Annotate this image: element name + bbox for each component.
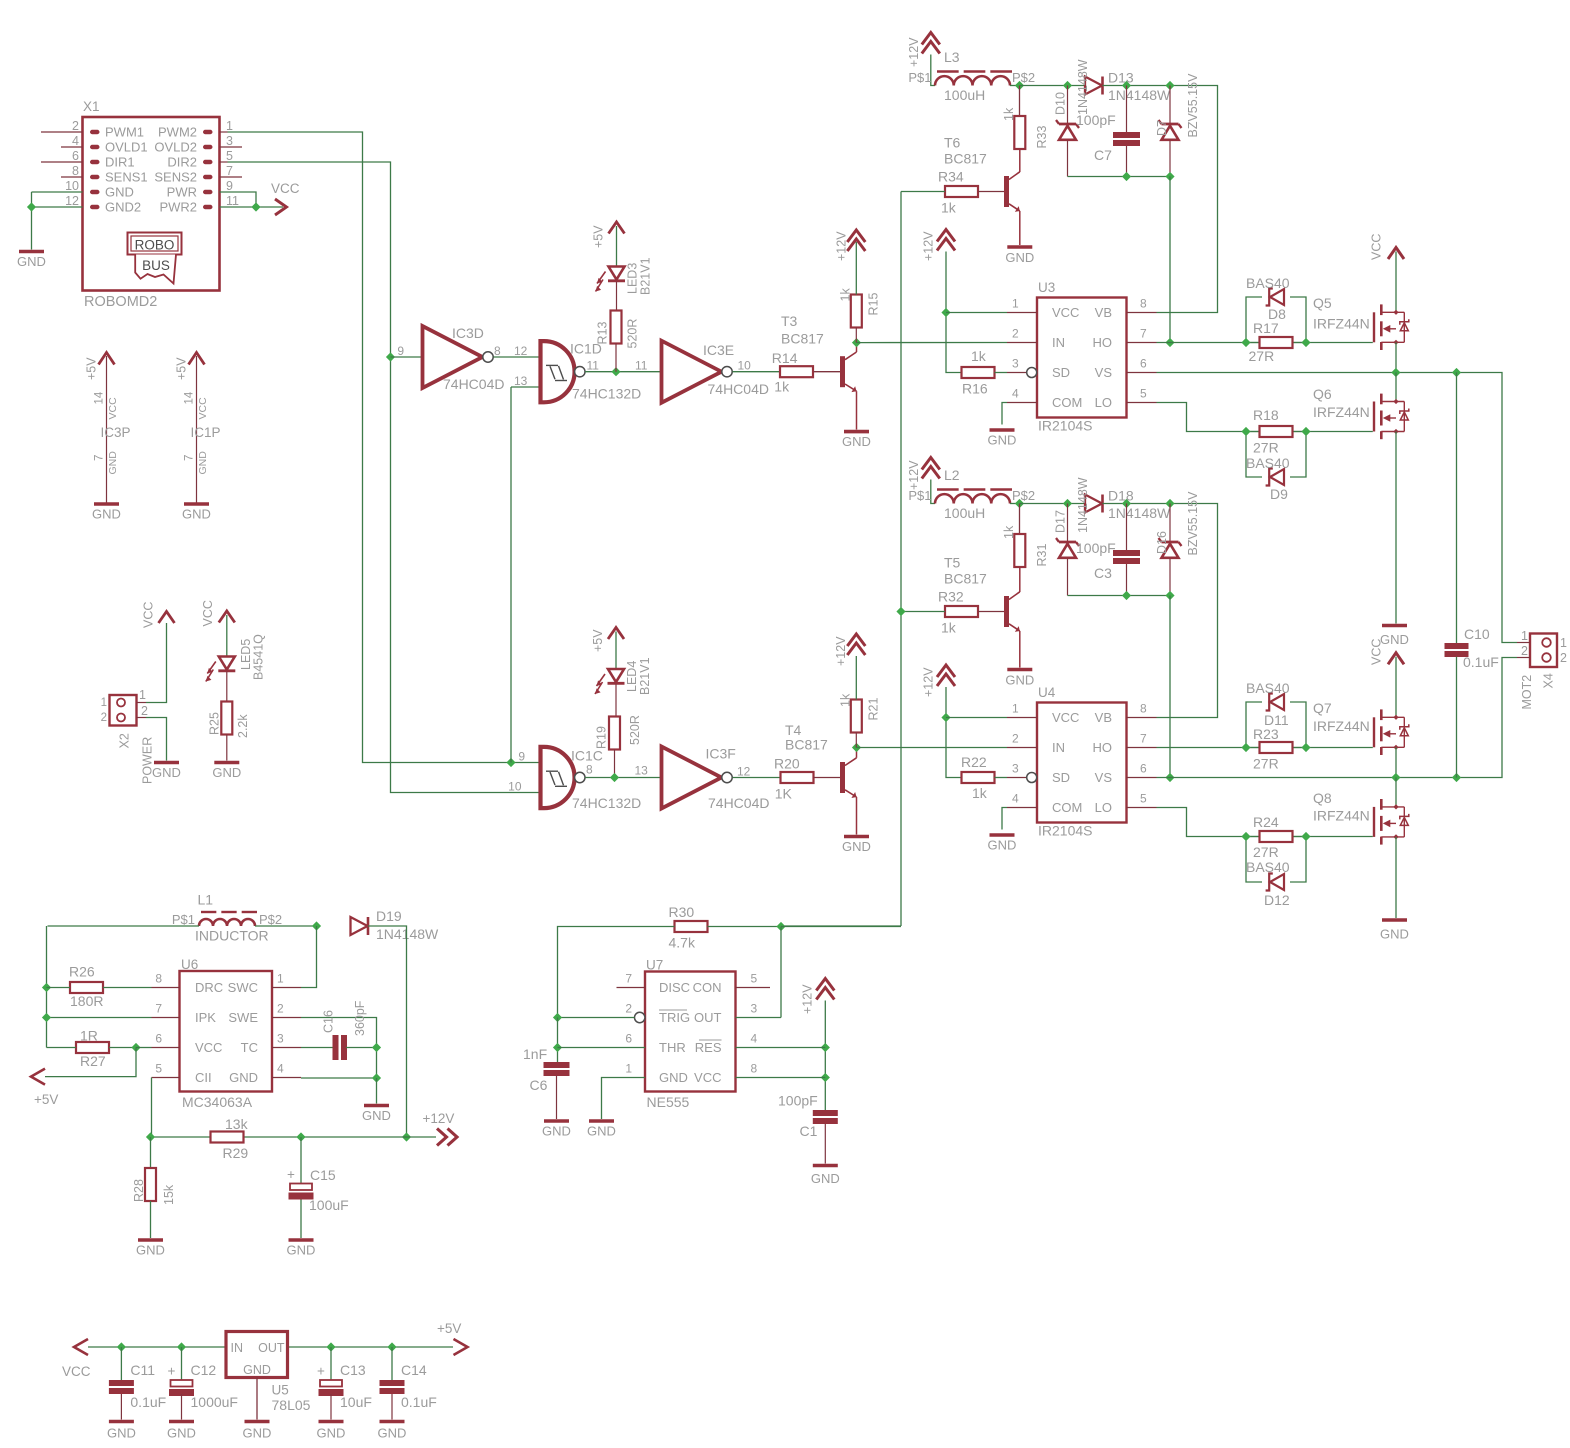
svg-text:T5: T5 [944,555,961,571]
svg-text:R20: R20 [774,756,800,772]
svg-text:VS: VS [1095,365,1113,380]
svg-text:1k: 1k [1002,525,1016,539]
svg-text:78L05: 78L05 [272,1397,311,1413]
svg-text:1N4148W: 1N4148W [1076,59,1090,115]
svg-text:INDUCTOR: INDUCTOR [195,928,269,944]
svg-text:9: 9 [518,750,525,764]
svg-text:R27: R27 [80,1053,106,1069]
svg-text:+12V: +12V [834,636,848,666]
svg-text:27R: 27R [1253,440,1279,456]
svg-text:VCC: VCC [107,397,119,420]
svg-text:GND: GND [107,451,119,475]
svg-text:R31: R31 [1035,544,1049,567]
svg-text:VS: VS [1095,770,1113,785]
svg-text:1k: 1k [1002,107,1016,121]
svg-text:GND: GND [542,1124,571,1139]
svg-text:DRC: DRC [195,980,223,995]
svg-text:100uH: 100uH [944,87,985,103]
svg-text:+12V: +12V [835,231,849,261]
svg-text:GND: GND [988,433,1017,448]
svg-text:4: 4 [277,1062,284,1076]
svg-text:+: + [287,1167,295,1182]
svg-text:100uF: 100uF [309,1197,349,1213]
svg-text:VCC: VCC [201,600,215,626]
svg-text:11: 11 [587,359,600,373]
svg-text:IRFZ44N: IRFZ44N [1313,404,1370,420]
svg-text:R18: R18 [1253,407,1279,423]
svg-text:L2: L2 [944,467,960,483]
svg-text:IN: IN [231,1341,244,1355]
svg-text:IC1P: IC1P [191,425,221,440]
svg-text:GND: GND [243,1426,272,1441]
svg-text:4.7k: 4.7k [669,935,696,951]
svg-text:520R: 520R [626,319,640,349]
svg-text:27R: 27R [1253,756,1279,772]
svg-text:+12V: +12V [801,984,815,1014]
svg-text:IRFZ44N: IRFZ44N [1313,718,1370,734]
svg-text:1k: 1k [941,620,957,636]
svg-text:HO: HO [1093,335,1113,350]
svg-text:100pF: 100pF [1076,540,1116,556]
svg-text:GND: GND [212,765,241,780]
svg-text:GND: GND [1380,632,1409,647]
svg-text:1: 1 [625,1062,632,1076]
svg-text:BAS40: BAS40 [1246,455,1290,471]
svg-text:BAS40: BAS40 [1246,275,1290,291]
svg-text:GND: GND [842,434,871,449]
svg-text:RES: RES [695,1040,722,1055]
svg-text:GND: GND [136,1243,165,1258]
svg-text:BAS40: BAS40 [1246,859,1290,875]
svg-text:BUS: BUS [142,258,170,273]
svg-text:BC817: BC817 [944,571,987,587]
svg-text:X1: X1 [83,99,100,114]
svg-text:2: 2 [1521,644,1528,658]
svg-text:IC3P: IC3P [101,425,131,440]
svg-text:1: 1 [139,688,146,702]
svg-text:X2: X2 [118,733,132,748]
svg-text:COM: COM [1052,800,1082,815]
svg-text:LED4: LED4 [625,661,639,692]
svg-text:1R: 1R [80,1028,98,1044]
svg-text:VCC: VCC [1052,710,1079,725]
svg-text:1k: 1k [971,348,987,364]
svg-text:C7: C7 [1094,147,1112,163]
svg-text:2: 2 [625,1002,632,1016]
svg-text:ROBOMD2: ROBOMD2 [84,294,157,310]
svg-text:VCC: VCC [197,397,209,420]
svg-text:D7: D7 [1155,120,1169,136]
svg-text:1nF: 1nF [523,1046,547,1062]
svg-text:1: 1 [226,119,233,133]
svg-text:1N4148W: 1N4148W [1076,477,1090,533]
svg-text:SENS1: SENS1 [105,170,148,185]
svg-text:IRFZ44N: IRFZ44N [1313,808,1370,824]
svg-text:13: 13 [514,374,528,388]
svg-text:NE555: NE555 [647,1094,690,1110]
svg-text:D9: D9 [1270,486,1288,502]
svg-text:C10: C10 [1464,626,1490,642]
svg-text:IC3F: IC3F [706,745,736,761]
svg-text:R30: R30 [669,904,695,920]
svg-text:1k: 1k [839,693,853,707]
svg-text:7: 7 [184,455,196,461]
svg-text:IC1C: IC1C [571,748,603,764]
svg-text:GND: GND [182,507,211,522]
svg-text:P$2: P$2 [1012,70,1035,85]
svg-text:7: 7 [155,1002,162,1016]
svg-text:360pF: 360pF [353,1000,367,1036]
svg-text:GND: GND [378,1426,407,1441]
svg-text:3: 3 [226,134,233,148]
svg-text:R17: R17 [1253,320,1279,336]
svg-text:1: 1 [1012,702,1019,716]
svg-text:SWC: SWC [228,980,258,995]
svg-text:MOT2: MOT2 [1520,675,1534,710]
svg-text:GND: GND [105,185,134,200]
svg-text:D12: D12 [1264,892,1290,908]
svg-text:CII: CII [195,1070,212,1085]
svg-text:8: 8 [751,1062,758,1076]
svg-text:GND: GND [229,1070,258,1085]
svg-text:LED3: LED3 [626,263,640,294]
svg-text:GND: GND [152,765,181,780]
svg-text:8: 8 [155,972,162,986]
svg-text:10: 10 [508,780,522,794]
svg-text:GND: GND [243,1363,271,1377]
svg-text:R24: R24 [1253,814,1279,830]
svg-text:T3: T3 [781,313,798,329]
svg-text:GND: GND [317,1426,346,1441]
svg-text:GND: GND [1005,673,1034,688]
svg-text:BAS40: BAS40 [1246,680,1290,696]
svg-text:U7: U7 [646,958,663,973]
svg-text:D16: D16 [1155,531,1169,554]
svg-text:BZV55.15V: BZV55.15V [1186,491,1200,556]
svg-text:IN: IN [1052,335,1065,350]
svg-text:1: 1 [277,972,284,986]
svg-text:IR2104S: IR2104S [1038,418,1092,434]
svg-text:2: 2 [101,712,107,724]
svg-text:12: 12 [514,344,528,358]
svg-text:3: 3 [751,1002,758,1016]
svg-text:P$2: P$2 [1012,488,1035,503]
svg-text:SENS2: SENS2 [154,170,197,185]
svg-text:IR2104S: IR2104S [1038,823,1092,839]
svg-text:5: 5 [1140,792,1147,806]
svg-text:2: 2 [141,704,148,718]
svg-text:2: 2 [277,1002,284,1016]
svg-text:VCC: VCC [142,602,156,628]
svg-text:4: 4 [1012,387,1019,401]
svg-text:U6: U6 [181,957,198,972]
svg-text:4: 4 [1012,792,1019,806]
svg-text:8: 8 [72,164,79,178]
svg-text:4: 4 [751,1032,758,1046]
svg-text:12: 12 [737,765,751,779]
svg-text:P$1: P$1 [908,488,931,503]
svg-text:U3: U3 [1038,280,1055,295]
svg-text:C1: C1 [800,1123,818,1139]
svg-text:OUT: OUT [258,1341,285,1355]
svg-text:PWR2: PWR2 [159,200,197,215]
svg-text:IPK: IPK [195,1010,216,1025]
svg-text:P$1: P$1 [172,912,195,927]
svg-text:R21: R21 [867,698,881,721]
svg-text:5: 5 [226,149,233,163]
svg-text:HO: HO [1093,740,1113,755]
svg-text:5: 5 [751,972,758,986]
svg-text:C6: C6 [530,1077,548,1093]
svg-text:6: 6 [625,1032,632,1046]
svg-text:GND: GND [1005,250,1034,265]
svg-text:D18: D18 [1108,488,1134,504]
svg-text:VCC: VCC [271,181,300,196]
svg-text:Q5: Q5 [1313,295,1332,311]
svg-text:R14: R14 [772,350,798,366]
svg-text:74HC04D: 74HC04D [708,795,769,811]
svg-text:R32: R32 [938,589,964,605]
svg-text:Q7: Q7 [1313,700,1332,716]
svg-text:R19: R19 [595,726,609,749]
svg-text:8: 8 [1140,702,1147,716]
svg-text:1000uF: 1000uF [191,1394,238,1410]
svg-text:0.1uF: 0.1uF [130,1394,166,1410]
svg-text:+12V: +12V [922,667,936,697]
svg-text:VCC: VCC [1370,639,1384,665]
svg-text:7: 7 [625,972,632,986]
svg-text:10uF: 10uF [340,1394,372,1410]
svg-text:1: 1 [1560,636,1567,650]
svg-text:3: 3 [1012,762,1019,776]
svg-text:7: 7 [94,455,106,461]
svg-text:C13: C13 [340,1362,366,1378]
svg-text:L3: L3 [944,49,960,65]
svg-text:74HC04D: 74HC04D [708,381,769,397]
svg-text:3: 3 [1012,357,1019,371]
svg-text:7: 7 [226,164,233,178]
svg-text:SD: SD [1052,365,1070,380]
svg-text:COM: COM [1052,395,1082,410]
svg-text:SWE: SWE [228,1010,258,1025]
svg-text:VB: VB [1095,305,1112,320]
svg-text:9: 9 [226,179,233,193]
svg-text:+5V: +5V [437,1321,461,1336]
svg-text:1k: 1k [941,200,957,216]
svg-text:3: 3 [277,1032,284,1046]
svg-text:6: 6 [1140,762,1147,776]
svg-text:+5V: +5V [34,1092,58,1107]
svg-text:R34: R34 [938,169,964,185]
svg-text:R33: R33 [1035,126,1049,149]
svg-text:VCC: VCC [694,1070,721,1085]
svg-text:OUT: OUT [694,1010,722,1025]
svg-text:PWM2: PWM2 [158,125,197,140]
svg-text:TRIG: TRIG [659,1010,690,1025]
svg-text:GND: GND [587,1124,616,1139]
svg-text:1: 1 [1012,297,1019,311]
svg-text:IC3E: IC3E [703,342,734,358]
svg-text:5: 5 [155,1062,162,1076]
svg-text:+5V: +5V [85,357,99,380]
svg-text:2: 2 [1012,327,1019,341]
svg-text:PWR: PWR [167,185,197,200]
svg-text:VCC: VCC [1370,234,1384,260]
svg-text:MC34063A: MC34063A [182,1094,253,1110]
svg-text:14: 14 [94,391,106,404]
svg-text:R29: R29 [223,1145,249,1161]
svg-text:VCC: VCC [62,1364,91,1379]
svg-text:R28: R28 [132,1179,146,1202]
svg-text:B21V1: B21V1 [639,257,653,295]
svg-text:R15: R15 [867,293,881,316]
svg-text:VB: VB [1095,710,1112,725]
svg-text:IRFZ44N: IRFZ44N [1313,316,1370,332]
svg-text:THR: THR [659,1040,686,1055]
svg-text:2: 2 [1012,732,1019,746]
svg-text:2: 2 [1560,651,1567,665]
svg-text:GND: GND [659,1070,688,1085]
svg-text:74HC132D: 74HC132D [572,795,641,811]
svg-text:D19: D19 [376,908,402,924]
svg-text:OVLD1: OVLD1 [105,140,148,155]
svg-text:4: 4 [72,134,79,148]
svg-text:1N4148W: 1N4148W [376,926,439,942]
svg-text:R25: R25 [208,712,222,735]
svg-text:U4: U4 [1038,685,1056,700]
svg-text:LO: LO [1095,800,1112,815]
svg-text:6: 6 [72,149,79,163]
svg-text:DIR2: DIR2 [167,155,197,170]
svg-text:+: + [168,1364,176,1379]
svg-text:11: 11 [635,359,648,373]
svg-text:+12V: +12V [423,1111,455,1126]
svg-text:GND2: GND2 [105,200,141,215]
svg-text:TC: TC [241,1040,258,1055]
svg-text:T6: T6 [944,135,961,151]
svg-text:GND: GND [842,839,871,854]
svg-text:74HC04D: 74HC04D [443,376,504,392]
svg-text:B21V1: B21V1 [638,657,652,695]
svg-text:1k: 1k [972,785,988,801]
svg-text:+12V: +12V [907,460,921,490]
svg-text:27R: 27R [1253,844,1279,860]
svg-text:27R: 27R [1249,348,1275,364]
svg-text:7: 7 [1140,327,1147,341]
svg-text:R26: R26 [69,964,95,980]
svg-text:BC817: BC817 [785,737,828,753]
svg-text:GND: GND [197,451,209,475]
svg-text:11: 11 [226,194,239,208]
svg-text:GND: GND [17,254,46,269]
svg-text:C3: C3 [1094,565,1112,581]
svg-text:GND: GND [1380,927,1409,942]
svg-text:180R: 180R [70,993,103,1009]
svg-text:IN: IN [1052,740,1065,755]
svg-text:+5V: +5V [175,357,189,380]
svg-text:+12V: +12V [907,37,921,67]
svg-text:Q8: Q8 [1313,790,1332,806]
svg-text:100pF: 100pF [1076,112,1116,128]
svg-text:13: 13 [635,764,649,778]
svg-text:U5: U5 [272,1383,289,1398]
svg-text:Q6: Q6 [1313,386,1332,402]
svg-text:L1: L1 [198,892,214,908]
svg-text:C12: C12 [191,1362,217,1378]
svg-text:7: 7 [1140,732,1147,746]
svg-text:D13: D13 [1108,70,1134,86]
svg-text:2.2k: 2.2k [236,714,250,738]
svg-text:DIR1: DIR1 [105,155,135,170]
svg-text:CON: CON [693,980,722,995]
svg-text:GND: GND [92,507,121,522]
svg-text:0.1uF: 0.1uF [1463,654,1499,670]
svg-text:15k: 15k [162,1184,176,1205]
svg-text:C15: C15 [310,1167,336,1183]
svg-text:5: 5 [1140,387,1147,401]
svg-text:9: 9 [397,344,404,358]
svg-text:PWM1: PWM1 [105,125,144,140]
svg-text:GND: GND [107,1426,136,1441]
svg-text:10: 10 [65,179,79,193]
svg-text:GND: GND [167,1426,196,1441]
svg-text:10: 10 [738,359,752,373]
svg-text:D10: D10 [1054,92,1068,115]
svg-text:OVLD2: OVLD2 [154,140,197,155]
svg-text:+12V: +12V [922,231,936,261]
svg-text:R22: R22 [961,754,987,770]
svg-text:1: 1 [101,697,107,709]
svg-text:100pF: 100pF [778,1093,818,1109]
svg-text:SD: SD [1052,770,1070,785]
svg-text:GND: GND [362,1108,391,1123]
svg-text:P$1: P$1 [908,70,931,85]
svg-text:X4: X4 [1542,673,1556,688]
svg-text:1k: 1k [839,288,853,302]
svg-text:6: 6 [1140,357,1147,371]
svg-text:ROBO: ROBO [135,238,175,253]
svg-text:R23: R23 [1253,726,1279,742]
svg-text:0.1uF: 0.1uF [401,1394,437,1410]
svg-text:C16: C16 [322,1010,336,1033]
svg-text:+5V: +5V [592,225,606,248]
svg-text:14: 14 [184,391,196,404]
svg-text:B4541Q: B4541Q [252,634,266,680]
svg-text:1K: 1K [775,786,793,802]
svg-text:74HC132D: 74HC132D [572,386,641,402]
svg-text:1N4148W: 1N4148W [1108,87,1171,103]
svg-text:8: 8 [494,344,501,358]
svg-text:D17: D17 [1054,510,1068,533]
svg-text:GND: GND [988,838,1017,853]
svg-text:+5V: +5V [591,629,605,652]
svg-text:P$2: P$2 [259,912,282,927]
svg-text:IC3D: IC3D [452,325,484,341]
svg-text:DISC: DISC [659,980,690,995]
svg-text:LO: LO [1095,395,1112,410]
svg-text:GND: GND [811,1171,840,1186]
svg-text:100uH: 100uH [944,505,985,521]
svg-text:BC817: BC817 [781,331,824,347]
svg-text:13k: 13k [225,1116,249,1132]
svg-text:BZV55.15V: BZV55.15V [1186,73,1200,138]
svg-text:6: 6 [155,1032,162,1046]
svg-text:2: 2 [72,119,79,133]
svg-text:12: 12 [65,194,79,208]
svg-text:1N4148W: 1N4148W [1108,505,1171,521]
svg-text:1k: 1k [774,379,790,395]
svg-text:VCC: VCC [1052,305,1079,320]
